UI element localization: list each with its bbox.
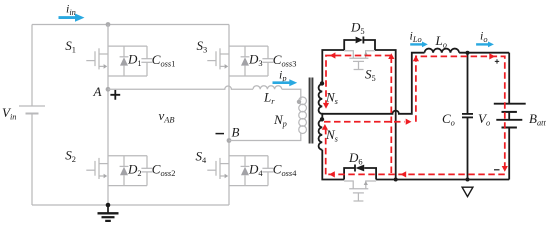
label minus vAB (216, 133, 225, 135)
wire S3 parallel box (229, 46, 268, 76)
svg-text:Co: Co (442, 111, 455, 128)
diode D3 (241, 46, 250, 76)
wire center tap (322, 53, 424, 114)
wire bottom rail (32, 204, 229, 206)
diode D2 (120, 156, 129, 186)
arrow iLo (410, 42, 428, 48)
svg-text:Lo: Lo (435, 33, 447, 50)
wire S1 parallel box (108, 46, 147, 76)
wire Ns top to S5 (322, 50, 344, 84)
diode D4 (241, 156, 250, 186)
svg-text:Lr: Lr (263, 90, 275, 107)
wire Lo to output node (459, 52, 509, 54)
capacitor Coss2 (141, 156, 152, 186)
diode D5 (344, 37, 375, 51)
svg-text:D6: D6 (348, 150, 363, 167)
svg-text:S3: S3 (197, 38, 208, 55)
node A (106, 87, 111, 92)
svg-text:Coss4: Coss4 (273, 161, 297, 178)
wire node A to Lr (108, 86, 253, 89)
diode D6 (344, 165, 376, 180)
label plus vAB (110, 90, 120, 100)
dot Ns top polarity (320, 81, 324, 85)
transistor S6 (344, 181, 376, 201)
capacitor Coss1 (141, 46, 152, 76)
battery Vin (19, 25, 45, 206)
svg-text:Coss1: Coss1 (152, 52, 176, 69)
diode D1 (120, 46, 129, 76)
wire Ns bottom to bottom rail (322, 150, 344, 180)
arrow ip (273, 79, 298, 86)
wire leg1 (107, 25, 109, 206)
svg-text:Coss2: Coss2 (152, 161, 176, 178)
svg-text:vAB: vAB (159, 108, 175, 125)
transformer core (310, 78, 313, 144)
svg-text:S2: S2 (65, 148, 76, 165)
node B (227, 138, 232, 143)
node output (466, 51, 470, 55)
wire Np to B (229, 137, 301, 141)
svg-text:ip: ip (279, 68, 287, 84)
svg-text:D4: D4 (248, 161, 263, 178)
transistor S5 (344, 51, 375, 70)
svg-text:Batt: Batt (529, 111, 546, 128)
svg-text:Coss3: Coss3 (273, 52, 297, 69)
dot Np polarity (297, 100, 301, 104)
winding Ns top (319, 84, 323, 120)
arrow io (476, 42, 494, 48)
winding Ns bottom (319, 120, 323, 150)
capacitor Coss3 (262, 46, 273, 76)
svg-text:Vo: Vo (478, 111, 490, 128)
transformer primary Np (299, 97, 307, 137)
svg-text:iLo: iLo (410, 29, 422, 45)
current path bottom Ns leg (325, 128, 327, 174)
inductor Lo (425, 49, 460, 53)
svg-text:D5: D5 (350, 20, 365, 37)
current path center tap (324, 121, 405, 123)
wire leg2 (228, 25, 230, 206)
svg-text:iin: iin (66, 2, 76, 18)
transistor S1 (86, 48, 108, 69)
label minus output (494, 169, 500, 171)
svg-text:Vin: Vin (2, 105, 16, 122)
capacitor Coss4 (262, 156, 273, 186)
transistor S3 (207, 48, 229, 69)
svg-text:S4: S4 (196, 149, 208, 166)
ground primary (106, 203, 111, 208)
label plus output (495, 59, 499, 63)
transistor S4 (207, 158, 229, 179)
wire bottom output rail (376, 179, 509, 181)
wire S4 parallel box (229, 156, 268, 186)
svg-text:io: io (480, 29, 488, 45)
wire S2 parallel box (108, 156, 147, 186)
arrowheads current path (322, 52, 508, 177)
node top rail junction (106, 22, 111, 27)
svg-text:Np: Np (273, 112, 287, 129)
transistor S2 (86, 158, 108, 179)
capacitor Co (462, 53, 473, 180)
svg-text:D2: D2 (127, 161, 142, 178)
wire S5 to right leg (375, 50, 396, 180)
current path bottom rail (327, 173, 505, 175)
svg-text:B: B (232, 125, 240, 140)
svg-text:A: A (93, 84, 102, 99)
svg-text:D1: D1 (127, 52, 142, 68)
svg-text:D3: D3 (248, 52, 263, 68)
node bottom S5 leg junction (394, 178, 398, 182)
current path top loop (326, 56, 391, 104)
current path output top (416, 56, 505, 167)
wire Lr to Np (282, 89, 301, 97)
svg-text:S5: S5 (365, 67, 376, 84)
battery Batt (494, 53, 526, 180)
svg-text:S1: S1 (65, 38, 76, 55)
arrow iin (59, 14, 85, 22)
current path right leg of S5 loop (390, 57, 392, 175)
node bottom Co junction (466, 178, 470, 182)
inductor Lr (253, 86, 282, 90)
wire top rail (32, 24, 229, 26)
ground output (462, 187, 473, 196)
dot Ns bottom polarity (320, 117, 324, 121)
